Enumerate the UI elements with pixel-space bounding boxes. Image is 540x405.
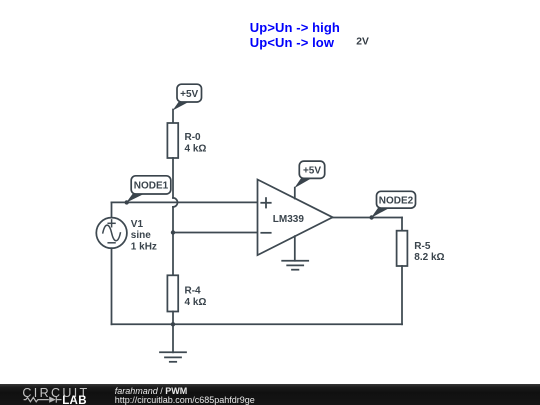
svg-text:8.2 kΩ: 8.2 kΩ bbox=[414, 252, 444, 263]
footer bar bbox=[0, 384, 540, 405]
voltage source V1 circle bbox=[96, 218, 127, 249]
svg-text:Up>Un -> high: Up>Un -> high bbox=[250, 20, 340, 35]
ground symbol (op-amp) bbox=[282, 261, 308, 270]
svg-text:R-4: R-4 bbox=[185, 286, 202, 297]
resistor R-0 body bbox=[167, 123, 178, 158]
footer credit text bbox=[115, 387, 255, 405]
V1 plus mark bbox=[108, 220, 115, 227]
svg-text:4 kΩ: 4 kΩ bbox=[185, 297, 207, 308]
op-amp U1 LM339 triangle bbox=[258, 180, 333, 256]
svg-text:Up<Un -> low: Up<Un -> low bbox=[250, 35, 335, 50]
svg-text:+5V: +5V bbox=[180, 89, 198, 100]
node flag NODE1 bbox=[126, 176, 171, 203]
wire: R-4 bottom lead to bottom bus bbox=[172, 312, 174, 325]
svg-text:4 kΩ: 4 kΩ bbox=[185, 143, 207, 154]
wire: V1 top lead bbox=[111, 202, 113, 217]
label V1 value bbox=[131, 219, 157, 253]
junction dot NODE1 bbox=[125, 200, 129, 204]
wire: ground lead below bus bbox=[172, 324, 174, 352]
svg-text:1 kHz: 1 kHz bbox=[131, 241, 157, 252]
junction dot at inverting branch bbox=[171, 230, 175, 234]
svg-text:LM339: LM339 bbox=[273, 214, 305, 225]
label R-4 value bbox=[185, 286, 207, 309]
svg-text:+5V: +5V bbox=[303, 166, 321, 177]
power flag +5V (op-amp supply) bbox=[294, 161, 324, 188]
wire: NODE1 horizontal wire to op-amp + input bbox=[112, 201, 258, 203]
op-amp + input mark bbox=[261, 198, 270, 207]
wire: R-0 top lead from +5V flag bbox=[172, 110, 174, 124]
V1 sine symbol bbox=[103, 225, 121, 241]
wire: R-0 bottom to hop over node1 wire bbox=[172, 158, 174, 198]
wire hop: vertical wire jumps over NODE1 horizontal wire bbox=[173, 198, 178, 207]
resistor R-5 body bbox=[397, 231, 408, 266]
junction dot NODE2 bbox=[369, 215, 373, 219]
svg-text:R-0: R-0 bbox=[185, 132, 202, 143]
wire: down to R-5 bbox=[401, 218, 403, 231]
op-amp - input mark bbox=[261, 232, 270, 234]
circuitlab logo bbox=[0, 384, 110, 405]
wire: op-amp V+ pin to +5V flag bbox=[294, 188, 296, 199]
wire: bottom bus bbox=[112, 323, 403, 325]
wire: V1 bottom lead to bottom bus bbox=[111, 248, 113, 324]
wire: op-amp output to NODE2 / R-5 bbox=[333, 217, 402, 219]
label R-0 value bbox=[185, 132, 207, 155]
svg-text:NODE2: NODE2 bbox=[379, 196, 414, 207]
resistor R-4 body bbox=[167, 275, 178, 311]
junction dot at bottom bus / ground bbox=[171, 322, 175, 326]
svg-text:LAB: LAB bbox=[62, 395, 87, 405]
svg-text:sine: sine bbox=[131, 230, 151, 241]
label R-5 value bbox=[414, 241, 444, 263]
svg-text:V1: V1 bbox=[131, 219, 144, 230]
svg-text:2V: 2V bbox=[356, 36, 369, 47]
V1 minus mark bbox=[108, 242, 115, 244]
svg-text:R-5: R-5 bbox=[414, 241, 431, 252]
ground symbol (bottom left) bbox=[160, 352, 186, 362]
node flag NODE2 bbox=[371, 191, 416, 218]
annotation blue text bbox=[250, 20, 340, 50]
wire: hop bottom to R-4 top through junction bbox=[172, 207, 174, 275]
wire: op-amp V- pin to ground bbox=[294, 236, 296, 261]
wire: inverting input wire from junction to op-amp bbox=[173, 232, 258, 234]
power flag +5V (above R-0) bbox=[173, 84, 202, 110]
svg-text:NODE1: NODE1 bbox=[134, 181, 169, 192]
wire: R-5 bottom lead to bus bbox=[401, 266, 403, 324]
